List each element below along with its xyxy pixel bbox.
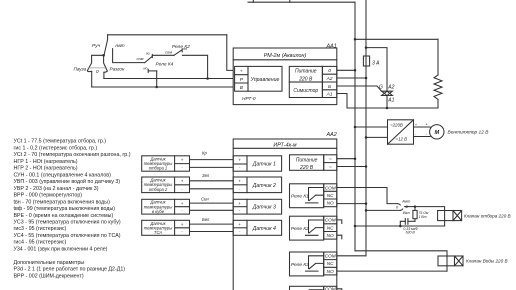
wire switch top y=34 <box>108 34 227 36</box>
svg-text:но: но <box>144 67 148 71</box>
switch SA3 blade with arrow <box>404 205 415 208</box>
sensor box 4 (TSA) <box>142 220 190 235</box>
svg-text:Бел: Бел <box>202 217 210 222</box>
svg-text:220 В: 220 В <box>299 165 314 171</box>
relay contact K2 (NO) <box>174 49 182 56</box>
fuse FU1 3A <box>363 56 369 66</box>
svg-text:Р3d - 2 1 (1 реле работает по: Р3d - 2 1 (1 реле работает по разнице Д2… <box>14 267 126 273</box>
svg-text:-: - <box>415 132 417 137</box>
svg-text:Питание: Питание <box>295 69 317 75</box>
svg-text:-: - <box>181 165 183 170</box>
svg-text:0: 0 <box>96 69 99 74</box>
node snubber top <box>414 205 417 208</box>
node pole of mode switch <box>102 54 105 57</box>
wire PSU to fan - <box>414 136 431 138</box>
svg-text:+: + <box>238 201 241 206</box>
wire triac A2 branch <box>366 48 387 91</box>
node on V wire <box>155 86 158 89</box>
wire valve2 feed from bus A <box>355 251 447 271</box>
svg-text:+: + <box>415 122 418 127</box>
AA2 Pitanie box <box>290 155 324 171</box>
contact hook Vkl <box>400 209 402 210</box>
wire Vkl bypass from bus B <box>366 209 400 211</box>
svg-text:+: + <box>238 222 241 227</box>
sensor box 2 (otbora 2) <box>142 177 190 193</box>
valve1 solenoid <box>438 211 453 221</box>
svg-text:Датчик 2: Датчик 2 <box>252 183 276 189</box>
node snubber bottom <box>399 225 402 228</box>
svg-text:М: М <box>434 130 439 136</box>
wire AA1 pin A1 to heater bottom y=108 <box>337 94 438 109</box>
svg-text:РМ-2м (Аквилон): РМ-2м (Аквилон) <box>264 53 307 59</box>
svg-text:Вентилятор 12 В: Вентилятор 12 В <box>448 130 490 136</box>
valve2 solenoid <box>438 256 455 266</box>
svg-text:+: + <box>181 201 184 206</box>
wire Pauza contact down to V pin wire <box>91 71 93 87</box>
svg-text:СОМ: СОМ <box>325 185 336 190</box>
bus A x=355 <box>354 2 356 251</box>
wire K3 COM from bus B <box>337 255 366 257</box>
wire K4 COM stub <box>337 289 342 290</box>
svg-text:У34 - 001 (звук при включении: У34 - 001 (звук при включении 4 реле) <box>14 246 108 252</box>
wire AA2 power ~ top to bus A <box>337 158 355 160</box>
AA2 sensor2 pin cells <box>233 177 247 193</box>
svg-text:-: - <box>181 229 183 234</box>
wire K4 upper out to K2 y=55.3 <box>152 54 174 56</box>
svg-text:Реле К2: Реле К2 <box>172 44 190 50</box>
wire sensor2 + <box>190 180 234 182</box>
svg-text:Датчик 3: Датчик 3 <box>252 205 276 211</box>
wire K2 out then down to P wire <box>182 55 207 78</box>
svg-text:УС4 - 55 (температура отключен: УС4 - 55 (температура отключения по ТСА) <box>14 233 121 239</box>
svg-text:+: + <box>181 222 184 227</box>
svg-text:+: + <box>181 179 184 184</box>
wire K1 NO to bus B <box>337 203 366 205</box>
wire valve1 return y=226 <box>355 225 445 227</box>
svg-text:Клапан Воды 220 В: Клапан Воды 220 В <box>466 259 508 264</box>
AA2 sensor3 pin cells <box>233 199 247 214</box>
svg-text:~220В: ~220В <box>390 122 403 127</box>
rotary switch Pauza/0/Razgon <box>87 55 107 72</box>
svg-text:СОМ: СОМ <box>325 254 336 259</box>
svg-text:+: + <box>425 122 428 127</box>
unit AA1 PM-2m box <box>233 48 337 105</box>
wire stub to off-page top 2 <box>289 0 291 2</box>
svg-text:Датчик 4: Датчик 4 <box>252 226 276 232</box>
fan motor M <box>430 125 444 139</box>
wire PSU to fan + <box>414 126 431 128</box>
svg-text:Питание: Питание <box>296 157 318 163</box>
svg-text:NC: NC <box>327 261 334 266</box>
wire valve2 return from K3 NO <box>337 270 447 272</box>
svg-text:нз: нз <box>146 52 150 56</box>
AA2 Datchik 3 box <box>247 199 282 214</box>
switch SA1 Ruch/Avt blade <box>104 35 145 63</box>
AA1 right pin column 0 A2 B A1 <box>322 66 336 97</box>
heater TEN zigzag <box>434 75 442 100</box>
svg-text:ИРТ-4к-м: ИРТ-4к-м <box>273 142 297 148</box>
svg-text:отбора 2: отбора 2 <box>149 187 168 192</box>
AA2 Datchik 1 box <box>247 156 282 171</box>
svg-text:-: - <box>181 187 183 192</box>
svg-text:0: 0 <box>328 68 331 74</box>
sensor box 3 (v kube) <box>142 199 190 214</box>
svg-text:Реле К4: Реле К4 <box>156 61 174 67</box>
AA1 pin column + P V <box>235 66 248 91</box>
svg-text:NO: NO <box>327 201 334 206</box>
svg-text:Кр: Кр <box>202 151 207 156</box>
AA2 power pin cells <box>324 155 337 171</box>
svg-text:АА2: АА2 <box>326 132 337 138</box>
svg-text:СОМ: СОМ <box>325 287 336 290</box>
svg-text:-: - <box>426 131 428 136</box>
svg-text:Реле К1: Реле К1 <box>291 194 309 200</box>
svg-text:Реле К3: Реле К3 <box>291 262 309 268</box>
wire P pin <box>104 78 233 80</box>
svg-text:+: + <box>238 157 241 162</box>
svg-text:220 В: 220 В <box>298 76 313 82</box>
svg-text:Управление: Управление <box>251 77 280 83</box>
svg-text:А2: А2 <box>387 85 394 91</box>
svg-text:Пауза: Пауза <box>74 66 87 71</box>
svg-text:Симистор: Симистор <box>293 88 318 94</box>
svg-text:ВРЕ - 0 (время на охлаждение с: ВРЕ - 0 (время на охлаждение системы) <box>14 213 114 219</box>
svg-text:НГР 1 - НОt (нагреватель): НГР 1 - НОt (нагреватель) <box>14 159 78 165</box>
svg-text:0: 0 <box>396 204 399 209</box>
wire valve1 feed <box>415 207 445 226</box>
svg-text:УВП - 003 (управление водой по: УВП - 003 (управление водой по датчику 3… <box>14 178 121 185</box>
svg-text:630 В: 630 В <box>406 230 416 234</box>
wire heater top y=39.3 <box>355 38 438 40</box>
AA1 Simistor box <box>289 82 322 98</box>
wire sensor4 - <box>190 231 234 233</box>
parameter list text block <box>14 139 131 280</box>
svg-text:3 А: 3 А <box>372 60 380 66</box>
svg-text:Руч: Руч <box>92 43 101 49</box>
svg-text:NO: NO <box>327 233 334 238</box>
svg-text:Зел: Зел <box>202 173 210 178</box>
svg-text:А1: А1 <box>326 92 333 98</box>
relay K1 box <box>290 184 324 208</box>
relay K4 contact symbol (cut off) <box>309 289 324 290</box>
wire vertical to AA1 plus pin x=226.5 <box>227 35 233 71</box>
wire AA1 pin A2 to bus B <box>337 77 366 79</box>
wire AA1 pin 0 to bus A <box>337 69 355 71</box>
svg-text:Реле К2: Реле К2 <box>291 226 309 232</box>
resistor R snubber <box>413 207 417 222</box>
node on P wire <box>206 77 209 80</box>
relay K3 box <box>290 252 324 276</box>
AA2 Datchik 4 box <box>247 220 282 235</box>
svg-text:в кубе: в кубе <box>152 209 165 214</box>
relay K2 pin cells COM NC NO <box>324 216 337 239</box>
sensor box 1 text <box>144 156 173 235</box>
svg-text:НГР 2 - НОt (нагреватель): НГР 2 - НОt (нагреватель) <box>14 166 78 172</box>
svg-text:~: ~ <box>329 158 332 163</box>
relay K2 box <box>290 216 324 240</box>
wire AA2 power ~ bottom to bus B <box>337 166 366 168</box>
svg-text:NC: NC <box>327 193 334 198</box>
svg-text:Клапан отбора 220 В: Клапан отбора 220 В <box>464 213 511 218</box>
wire sensor3 - <box>190 209 234 211</box>
svg-text:NO: NO <box>327 269 334 274</box>
svg-text:Авт: Авт <box>401 198 411 203</box>
svg-text:Разгон: Разгон <box>110 66 125 71</box>
svg-text:ТСА: ТСА <box>154 230 162 235</box>
svg-text:А1: А1 <box>387 98 394 104</box>
svg-text:УС3 - 95 (температура отключен: УС3 - 95 (температура отключения по кубу… <box>14 220 121 226</box>
relay contact K4 (changeover) <box>145 54 157 72</box>
svg-text:АА1: АА1 <box>326 44 337 50</box>
svg-text:Датчик 1: Датчик 1 <box>252 162 276 168</box>
svg-text:Авт: Авт <box>114 43 125 49</box>
wire K2 NO stub <box>337 235 342 239</box>
heater leads <box>437 39 439 108</box>
svg-text:tвн - 70 (температура включени: tвн - 70 (температура включения воды) <box>14 199 111 205</box>
wire PSU input top <box>355 126 388 128</box>
relay K3 pin cells COM NC NO <box>324 252 337 275</box>
AA2 Datchik 2 box <box>247 177 282 193</box>
sensor box 1 (otbora 1) <box>142 156 190 171</box>
svg-text:=12 В: =12 В <box>396 136 408 141</box>
wire Razgon contact down to P pin wire <box>103 72 105 78</box>
wire sensor1 + <box>190 159 234 161</box>
valve2 body X <box>455 256 464 266</box>
svg-text:УСt 1 - 77.5 (температура отбо: УСt 1 - 77.5 (температура отбора, гр.) <box>14 139 107 145</box>
valve1 body X <box>453 211 462 221</box>
svg-text:СОМ: СОМ <box>325 218 336 223</box>
svg-text:Син: Син <box>201 196 209 201</box>
svg-text:ВРР - 002 (ШИМ-декремент): ВРР - 002 (ШИМ-декремент) <box>14 273 84 279</box>
relay K1 contact symbol <box>306 188 324 203</box>
svg-text:гис3 - 95 (гистерезис): гис3 - 95 (гистерезис) <box>14 226 67 232</box>
capacitor C snubber <box>400 219 415 227</box>
svg-text:Дополнительные параметры: Дополнительные параметры <box>14 260 85 266</box>
svg-text:~: ~ <box>329 165 332 170</box>
wire sensor3 + <box>190 202 234 204</box>
svg-text:А2: А2 <box>326 76 333 82</box>
relay K2 contact symbol <box>306 220 324 235</box>
wire V pin <box>92 86 234 88</box>
wire K1 COM to mode switch <box>337 188 398 204</box>
relay K1 pin cells COM NC NO <box>324 184 337 207</box>
svg-text:NC: NC <box>327 225 334 230</box>
svg-text:+: + <box>181 157 184 162</box>
svg-text:НРТ-0: НРТ-0 <box>242 96 256 102</box>
svg-text:+: + <box>240 68 243 73</box>
svg-text:УСt 2 - 70 (температура оконч: УСt 2 - 70 (температура окончания разгон… <box>14 152 131 158</box>
svg-text:+: + <box>238 179 241 184</box>
svg-text:СУН - 00.1 (спецуправление 4 к: СУН - 00.1 (спецуправление 4 каналов) <box>14 172 112 178</box>
AA1 Upravlenie box <box>248 66 282 91</box>
unit AA2 IRT-4k-m box <box>233 139 337 290</box>
labels sensor pin plus/minus AA2 <box>238 157 241 234</box>
wire triac A1 down <box>386 96 388 108</box>
svg-text:гис 1 - 0,2 (гистерезис отбора: гис 1 - 0,2 (гистерезис отбора, гр.) <box>14 146 98 152</box>
labels sensor pin plus/minus <box>181 157 184 234</box>
triac VS1 <box>382 91 393 95</box>
power supply unit 220/12V <box>388 120 414 144</box>
svg-text:Вкл: Вкл <box>403 210 411 215</box>
svg-text:УВР 2 - 203 (на 2 канал - датч: УВР 2 - 203 (на 2 канал - датчик 3) <box>14 186 99 192</box>
svg-text:сом: сом <box>137 56 144 61</box>
wire stub to off-page top 1 <box>252 0 254 2</box>
wire K4 NO contact down to V wire <box>156 71 158 87</box>
relay K3 contact symbol <box>306 256 324 271</box>
svg-text:-: - <box>181 208 183 213</box>
svg-text:G: G <box>379 85 383 91</box>
svg-text:гис4 - 95 (гистерезис): гис4 - 95 (гистерезис) <box>14 240 67 246</box>
wire PSU input bottom <box>366 136 388 138</box>
svg-text:Б: Б <box>328 84 331 90</box>
wire top mains horizontal y=3.7 <box>248 1 355 3</box>
wire sensor2 - <box>190 188 234 190</box>
AA2 sensor4 pin cells <box>233 220 247 235</box>
wire AA1 pin B (gate) to triac G <box>337 86 382 91</box>
svg-text:ВРР - 000 (терморегулятор): ВРР - 000 (терморегулятор) <box>14 193 83 199</box>
wire sensor4 + <box>190 223 234 225</box>
contact hook Avt <box>397 204 400 205</box>
wire sensor1 - <box>190 166 234 168</box>
wire K2 COM stub <box>337 220 342 224</box>
AA2 sensor1 pin cells <box>233 156 247 171</box>
svg-text:1 Вт: 1 Вт <box>418 215 426 219</box>
relay K4 pin cell COM (cut off) <box>324 286 337 290</box>
bus B x=366 <box>365 0 367 256</box>
AA1 Pitanie box <box>289 66 322 82</box>
svg-text:отбора 1: отбора 1 <box>149 166 167 171</box>
relay K4 box (cut off) <box>290 286 324 290</box>
labels K1 COM NC NO <box>325 185 336 290</box>
svg-text:tвф - 99 (температура выключен: tвф - 99 (температура выключения воды) <box>14 206 116 212</box>
